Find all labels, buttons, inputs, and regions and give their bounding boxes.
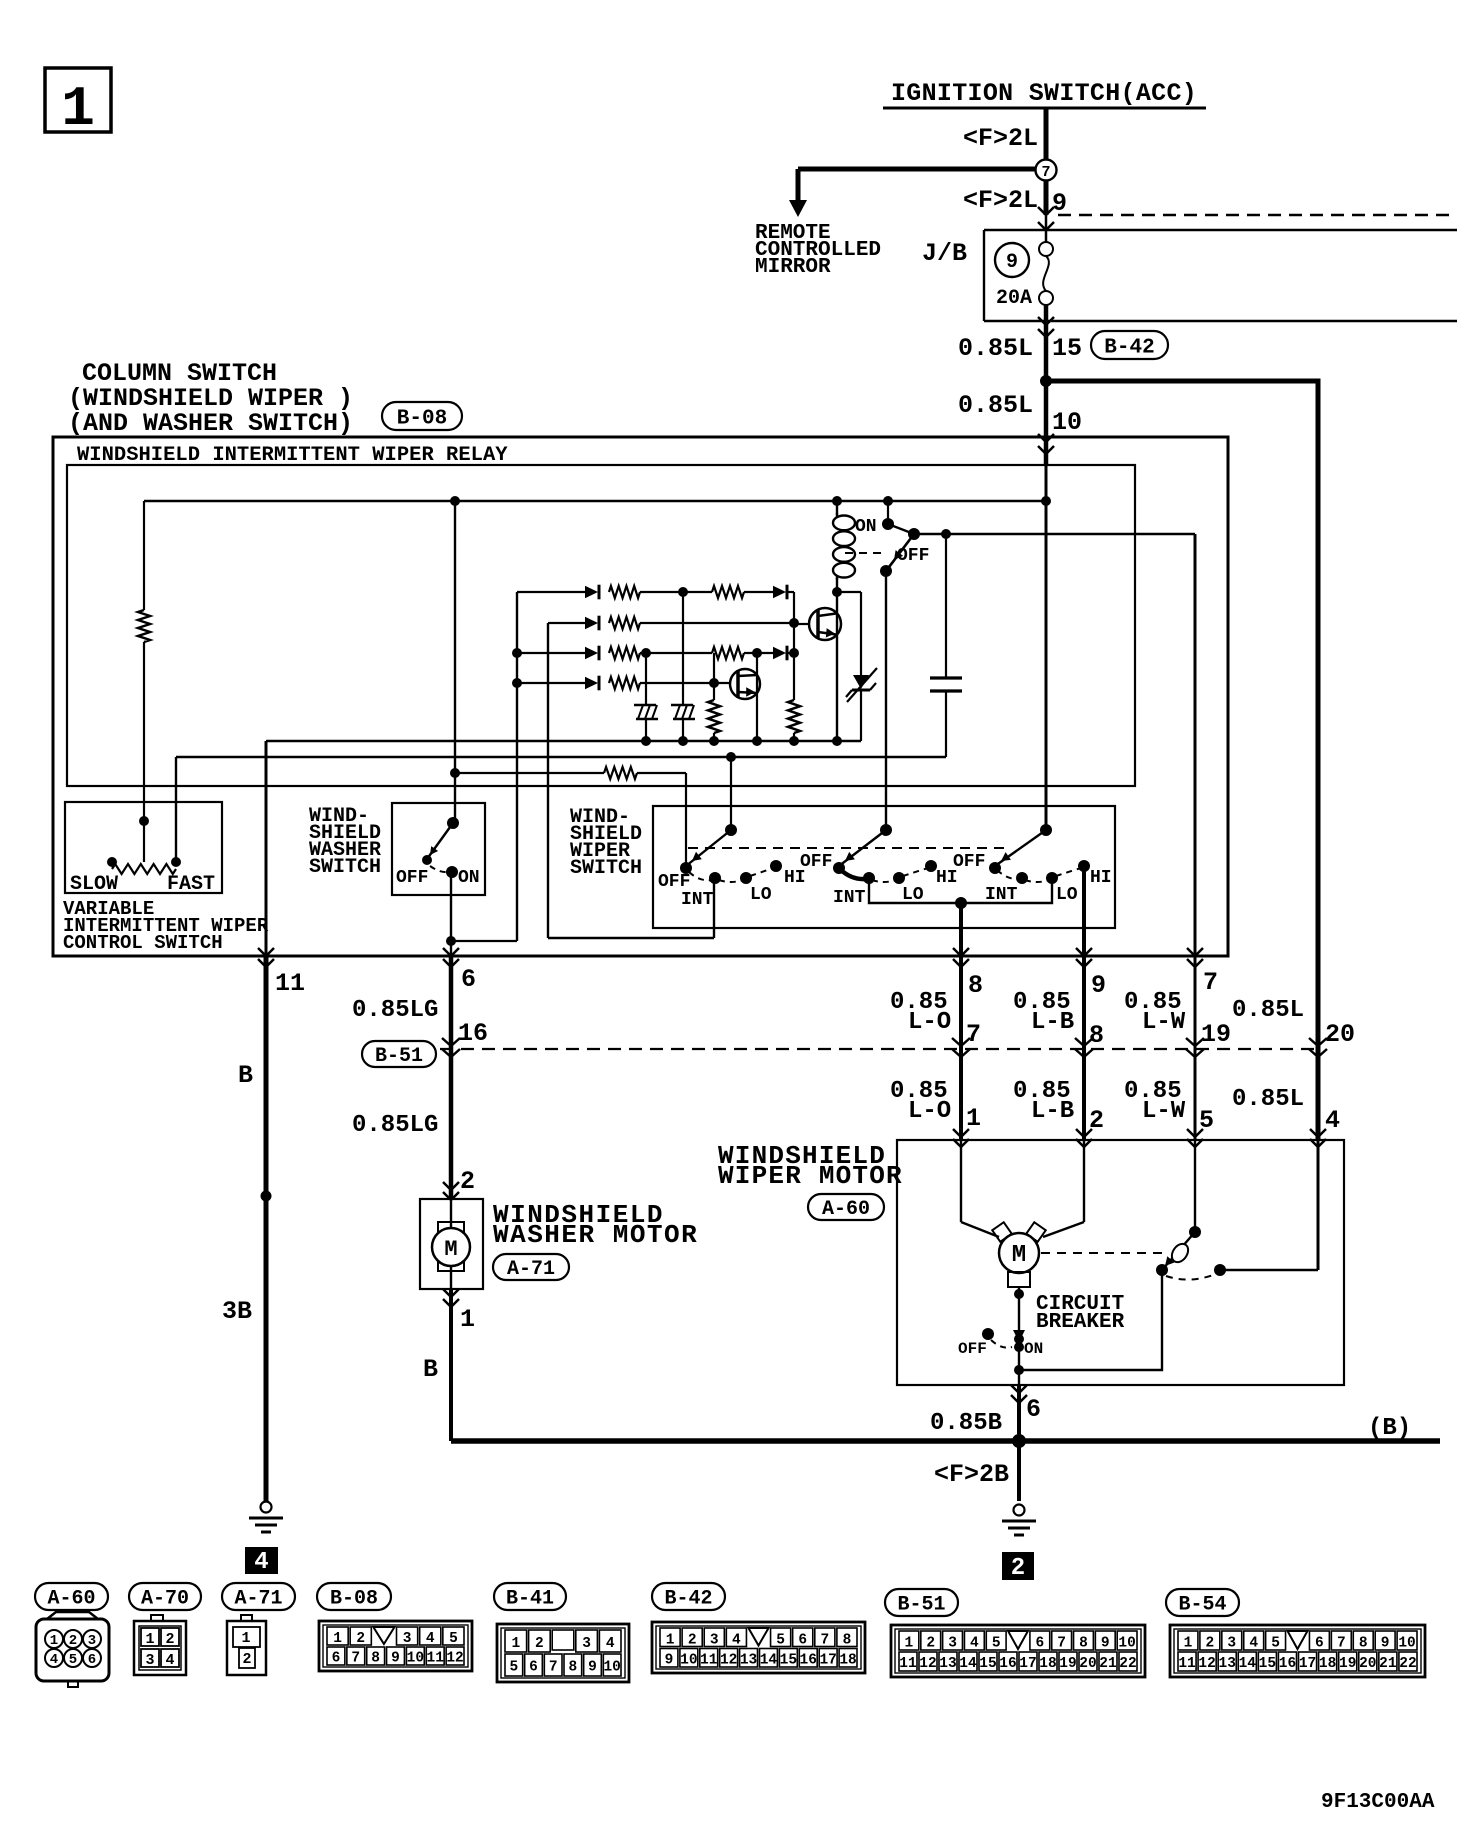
svg-text:7: 7 (1203, 968, 1218, 997)
svg-text:19: 19 (1201, 1020, 1231, 1049)
svg-text:1: 1 (666, 1632, 675, 1648)
svg-text:6: 6 (88, 1652, 96, 1668)
svg-text:12: 12 (919, 1656, 936, 1672)
svg-text:14: 14 (1239, 1656, 1257, 1672)
svg-text:10: 10 (680, 1652, 697, 1668)
svg-text:B: B (238, 1061, 253, 1090)
svg-text:A-71: A-71 (507, 1258, 555, 1281)
svg-text:LO: LO (1056, 885, 1078, 905)
svg-text:6: 6 (1026, 1395, 1041, 1424)
svg-text:20A: 20A (996, 287, 1032, 310)
svg-text:FAST: FAST (167, 873, 215, 896)
svg-text:OFF: OFF (658, 872, 690, 892)
svg-text:10: 10 (407, 1651, 424, 1667)
svg-text:M: M (444, 1237, 457, 1262)
svg-text:A-60: A-60 (822, 1198, 870, 1221)
svg-text:1: 1 (61, 77, 95, 141)
svg-text:4: 4 (165, 1652, 174, 1669)
svg-text:7: 7 (549, 1660, 558, 1676)
svg-text:7: 7 (351, 1651, 360, 1667)
svg-text:10: 10 (1052, 408, 1082, 437)
svg-text:1: 1 (460, 1305, 475, 1334)
svg-text:1: 1 (145, 1631, 154, 1648)
svg-text:18: 18 (1039, 1656, 1056, 1672)
svg-text:8: 8 (968, 971, 983, 1000)
svg-text:3: 3 (88, 1633, 96, 1649)
svg-text:2: 2 (69, 1633, 77, 1649)
svg-text:BREAKER: BREAKER (1036, 1311, 1125, 1334)
svg-text:9: 9 (1101, 1636, 1110, 1652)
svg-text:1: 1 (1184, 1636, 1193, 1652)
svg-text:2: 2 (926, 1636, 935, 1652)
svg-text:OFF: OFF (958, 1340, 987, 1358)
svg-text:9: 9 (1052, 189, 1067, 218)
svg-text:12: 12 (446, 1651, 463, 1667)
svg-text:21: 21 (1379, 1656, 1397, 1672)
svg-text:OFF: OFF (396, 868, 428, 888)
svg-text:5: 5 (1271, 1636, 1280, 1652)
svg-text:B-41: B-41 (506, 1588, 554, 1611)
svg-text:6: 6 (1315, 1636, 1324, 1652)
svg-text:B-08: B-08 (397, 408, 447, 431)
svg-text:15: 15 (1259, 1656, 1276, 1672)
svg-text:L-O: L-O (908, 1009, 951, 1036)
svg-text:7: 7 (1041, 164, 1050, 181)
svg-text:6: 6 (461, 965, 476, 994)
svg-text:12: 12 (720, 1652, 737, 1668)
svg-text:WIPER MOTOR: WIPER MOTOR (718, 1161, 903, 1191)
svg-text:6: 6 (798, 1632, 807, 1648)
svg-text:8: 8 (371, 1651, 380, 1667)
svg-text:12: 12 (1198, 1656, 1215, 1672)
svg-text:B-42: B-42 (1104, 337, 1154, 360)
svg-text:18: 18 (1319, 1656, 1336, 1672)
svg-text:A-70: A-70 (141, 1588, 189, 1611)
svg-text:9: 9 (588, 1660, 597, 1676)
svg-text:4: 4 (50, 1652, 58, 1668)
svg-text:WASHER MOTOR: WASHER MOTOR (493, 1220, 698, 1250)
svg-text:6: 6 (332, 1651, 341, 1667)
svg-text:3: 3 (948, 1636, 957, 1652)
svg-text:4: 4 (426, 1631, 435, 1647)
svg-text:15: 15 (780, 1652, 797, 1668)
svg-text:8: 8 (1079, 1636, 1088, 1652)
svg-text:L-B: L-B (1031, 1009, 1074, 1036)
svg-text:15: 15 (1052, 334, 1082, 363)
svg-text:8: 8 (568, 1660, 577, 1676)
svg-text:MIRROR: MIRROR (755, 256, 831, 279)
svg-text:13: 13 (740, 1652, 757, 1668)
svg-text:WINDSHIELD INTERMITTENT WIPER: WINDSHIELD INTERMITTENT WIPER RELAY (77, 444, 508, 467)
svg-text:20: 20 (1079, 1656, 1096, 1672)
svg-text:ON: ON (855, 517, 877, 537)
svg-text:4: 4 (254, 1549, 268, 1576)
svg-text:1: 1 (333, 1631, 342, 1647)
svg-text:3: 3 (582, 1636, 591, 1652)
svg-text:13: 13 (939, 1656, 956, 1672)
svg-text:OFF: OFF (800, 852, 832, 872)
svg-text:B-08: B-08 (330, 1588, 378, 1611)
svg-text:11: 11 (275, 969, 305, 998)
svg-text:A-60: A-60 (47, 1588, 95, 1611)
svg-text:10: 10 (1398, 1636, 1415, 1652)
svg-text:8: 8 (1359, 1636, 1368, 1652)
svg-text:0.85LG: 0.85LG (352, 1112, 438, 1139)
svg-text:7: 7 (820, 1632, 829, 1648)
svg-text:L-B: L-B (1031, 1098, 1074, 1125)
svg-text:19: 19 (1339, 1656, 1356, 1672)
svg-text:4: 4 (1325, 1106, 1340, 1135)
svg-text:8: 8 (1089, 1021, 1104, 1050)
svg-text:13: 13 (1219, 1656, 1236, 1672)
svg-text:17: 17 (1299, 1656, 1316, 1672)
svg-text:15: 15 (979, 1656, 996, 1672)
svg-text:SWITCH: SWITCH (309, 856, 381, 879)
svg-text:16: 16 (800, 1652, 817, 1668)
svg-text:20: 20 (1325, 1020, 1355, 1049)
svg-text:IGNITION SWITCH(ACC): IGNITION SWITCH(ACC) (891, 79, 1197, 108)
svg-text:2: 2 (242, 1651, 251, 1668)
svg-text:5: 5 (509, 1660, 518, 1676)
svg-text:J/B: J/B (922, 239, 967, 268)
svg-text:L-O: L-O (908, 1098, 951, 1125)
svg-text:4: 4 (1249, 1636, 1258, 1652)
svg-text:7: 7 (1337, 1636, 1346, 1652)
svg-text:SWITCH: SWITCH (570, 857, 642, 880)
svg-text:HI: HI (1090, 868, 1112, 888)
svg-text:7: 7 (966, 1020, 981, 1049)
svg-text:20: 20 (1359, 1656, 1376, 1672)
svg-text:CONTROL SWITCH: CONTROL SWITCH (63, 932, 223, 954)
svg-text:10: 10 (603, 1660, 620, 1676)
svg-text:2: 2 (460, 1167, 475, 1196)
svg-text:0.85LG: 0.85LG (352, 997, 438, 1024)
svg-text:16: 16 (999, 1656, 1016, 1672)
svg-text:M: M (1012, 1242, 1026, 1269)
svg-text:9: 9 (391, 1651, 400, 1667)
svg-text:ON: ON (1024, 1340, 1043, 1358)
svg-text:6: 6 (529, 1660, 538, 1676)
svg-text:6: 6 (1035, 1636, 1044, 1652)
svg-text:1: 1 (50, 1633, 58, 1649)
svg-text:4: 4 (606, 1636, 615, 1652)
svg-text:B: B (423, 1355, 438, 1384)
svg-text:14: 14 (959, 1656, 977, 1672)
svg-text:3: 3 (1227, 1636, 1236, 1652)
svg-text:LO: LO (750, 885, 772, 905)
svg-text:B-51: B-51 (375, 1045, 423, 1068)
svg-text:17: 17 (819, 1652, 836, 1668)
svg-text:ON: ON (458, 868, 480, 888)
svg-text:OFF: OFF (897, 546, 929, 566)
svg-text:0.85B: 0.85B (930, 1410, 1002, 1437)
svg-text:7: 7 (1057, 1636, 1066, 1652)
svg-text:L-W: L-W (1142, 1009, 1186, 1036)
svg-text:3: 3 (145, 1652, 154, 1669)
svg-text:2: 2 (688, 1632, 697, 1648)
svg-text:B-42: B-42 (664, 1588, 712, 1611)
svg-text:SLOW: SLOW (70, 873, 118, 896)
svg-text:4: 4 (732, 1632, 741, 1648)
svg-text:11: 11 (700, 1652, 718, 1668)
svg-text:19: 19 (1059, 1656, 1076, 1672)
svg-text:5: 5 (776, 1632, 785, 1648)
svg-text:16: 16 (458, 1019, 488, 1048)
svg-text:22: 22 (1119, 1656, 1136, 1672)
svg-text:INT: INT (833, 888, 866, 908)
svg-text:16: 16 (1279, 1656, 1296, 1672)
svg-text:3: 3 (403, 1631, 412, 1647)
svg-text:(AND WASHER SWITCH): (AND WASHER SWITCH) (68, 409, 353, 438)
svg-text:2: 2 (356, 1631, 365, 1647)
svg-text:<F>2L: <F>2L (963, 124, 1038, 153)
svg-text:OFF: OFF (953, 852, 985, 872)
svg-text:14: 14 (760, 1652, 778, 1668)
svg-text:18: 18 (839, 1652, 856, 1668)
svg-text:1: 1 (511, 1636, 520, 1652)
svg-text:9: 9 (1006, 251, 1018, 274)
svg-text:3B: 3B (222, 1297, 252, 1326)
svg-text:9F13C00AA: 9F13C00AA (1321, 1791, 1435, 1814)
svg-text:<F>2B: <F>2B (934, 1460, 1009, 1489)
svg-text:17: 17 (1019, 1656, 1036, 1672)
svg-text:2: 2 (165, 1631, 174, 1648)
svg-text:2: 2 (1011, 1555, 1025, 1582)
svg-text:A-71: A-71 (234, 1588, 282, 1611)
svg-text:5: 5 (992, 1636, 1001, 1652)
svg-text:0.85L: 0.85L (1232, 1086, 1304, 1113)
svg-text:0.85L: 0.85L (958, 334, 1033, 363)
svg-text:22: 22 (1399, 1656, 1416, 1672)
svg-text:L-W: L-W (1142, 1098, 1186, 1125)
svg-text:3: 3 (710, 1632, 719, 1648)
svg-text:11: 11 (427, 1651, 445, 1667)
svg-text:0.85L: 0.85L (958, 391, 1033, 420)
svg-text:10: 10 (1118, 1636, 1135, 1652)
svg-text:1: 1 (905, 1636, 914, 1652)
svg-text:5: 5 (69, 1652, 77, 1668)
svg-text:11: 11 (899, 1656, 917, 1672)
svg-text:8: 8 (843, 1632, 852, 1648)
svg-text:INT: INT (681, 890, 714, 910)
svg-text:1: 1 (241, 1630, 250, 1647)
svg-text:5: 5 (449, 1631, 458, 1647)
svg-text:11: 11 (1178, 1656, 1196, 1672)
svg-text:0.85L: 0.85L (1232, 997, 1304, 1024)
svg-text:9: 9 (1091, 971, 1106, 1000)
svg-text:(B): (B) (1368, 1415, 1411, 1442)
svg-text:2: 2 (1206, 1636, 1215, 1652)
svg-text:9: 9 (665, 1652, 674, 1668)
svg-text:B-54: B-54 (1178, 1594, 1226, 1617)
svg-text:<F>2L: <F>2L (963, 186, 1038, 215)
svg-text:B-51: B-51 (897, 1594, 945, 1617)
svg-text:4: 4 (970, 1636, 979, 1652)
svg-text:2: 2 (535, 1636, 544, 1652)
svg-text:9: 9 (1381, 1636, 1390, 1652)
svg-text:21: 21 (1099, 1656, 1117, 1672)
